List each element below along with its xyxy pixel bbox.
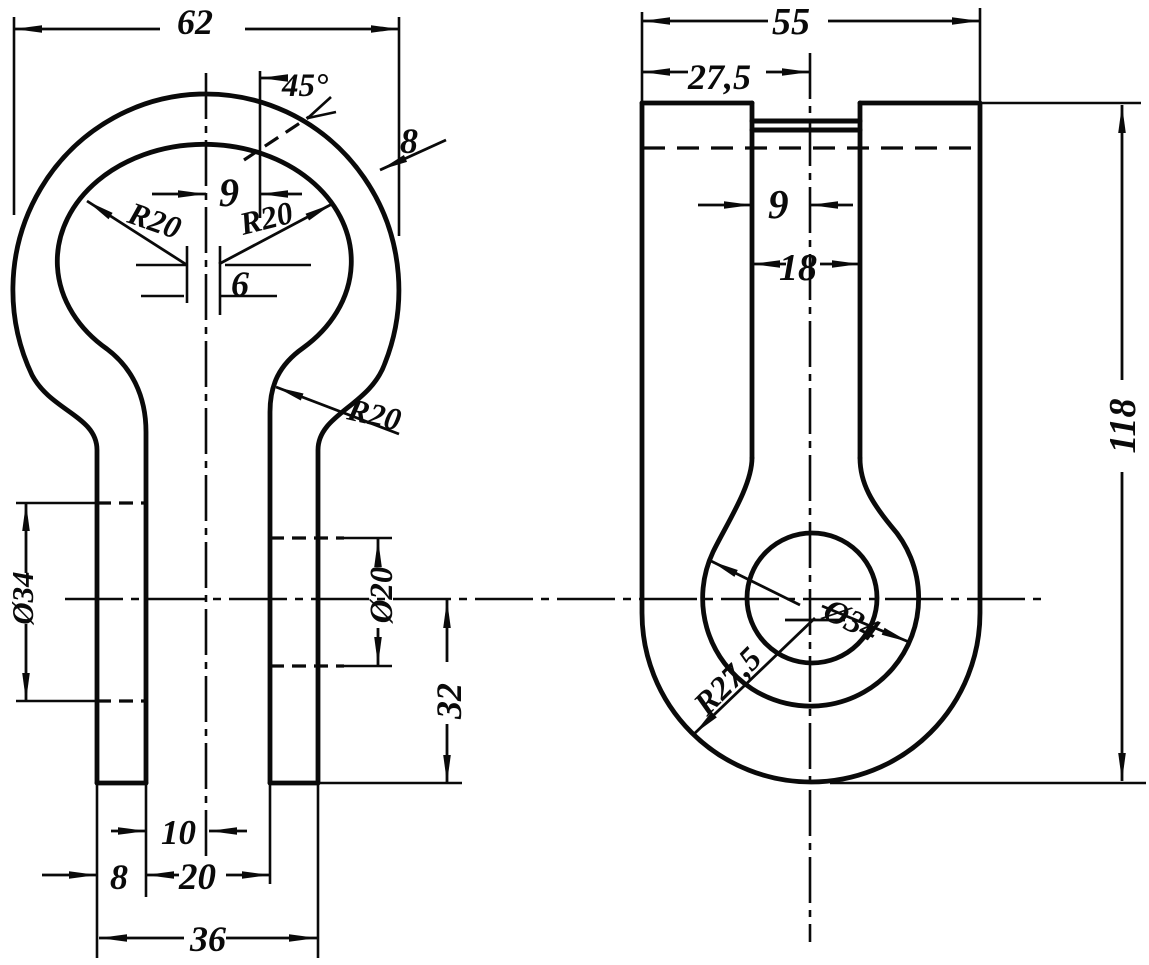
svg-text:27,5: 27,5 bbox=[687, 57, 751, 97]
svg-text:R20: R20 bbox=[235, 194, 296, 242]
svg-text:18: 18 bbox=[779, 247, 817, 289]
svg-text:R27,5: R27,5 bbox=[686, 641, 769, 724]
svg-text:36: 36 bbox=[189, 919, 226, 959]
svg-text:45°: 45° bbox=[281, 68, 328, 104]
svg-text:R20: R20 bbox=[123, 194, 186, 246]
svg-text:R20: R20 bbox=[343, 391, 404, 438]
svg-text:Ø34: Ø34 bbox=[5, 571, 40, 625]
svg-text:32: 32 bbox=[429, 683, 469, 720]
svg-text:10: 10 bbox=[161, 813, 196, 852]
svg-text:55: 55 bbox=[772, 1, 810, 43]
svg-text:Ø34: Ø34 bbox=[817, 592, 885, 650]
svg-text:8: 8 bbox=[110, 857, 128, 897]
svg-text:20: 20 bbox=[178, 857, 216, 898]
svg-text:8: 8 bbox=[400, 121, 418, 161]
svg-text:6: 6 bbox=[231, 264, 249, 304]
svg-text:118: 118 bbox=[1102, 399, 1144, 454]
svg-text:Ø20: Ø20 bbox=[364, 567, 400, 625]
svg-text:62: 62 bbox=[177, 2, 213, 42]
svg-text:9: 9 bbox=[768, 181, 789, 227]
